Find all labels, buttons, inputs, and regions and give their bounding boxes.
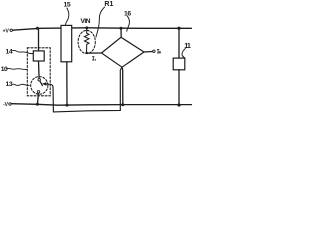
wire diamond bottom to -V rail	[121, 67, 124, 105]
node junction dot -V rail / switch	[36, 103, 39, 106]
node junction dot -V rail / 15	[66, 104, 69, 107]
svg-text:14: 14	[6, 48, 13, 55]
resistor block 15	[61, 25, 72, 61]
node junction dot -V rail / diamond	[121, 103, 124, 106]
wire diamond right vertex to output terminal	[144, 51, 153, 54]
wire control line from arrow to lower return line	[46, 84, 54, 112]
wire block 15 to -V rail	[66, 62, 68, 105]
dashed box block 10	[27, 48, 50, 96]
wire top rail down to block 11	[178, 28, 180, 58]
svg-text:10: 10	[1, 66, 8, 73]
leader line for R1	[96, 7, 105, 37]
leader line for 11	[182, 48, 185, 57]
wire from top rail down to block 14	[38, 29, 40, 51]
label I1	[92, 57, 95, 61]
node output terminal I0	[153, 50, 155, 52]
node junction dot top rail / 11	[177, 27, 180, 30]
switch 13 lever	[40, 81, 43, 86]
wire -V rail	[11, 104, 191, 106]
switch 13 top contact	[38, 79, 41, 82]
svg-text:VIN: VIN	[81, 18, 91, 25]
node corner dot R1 bottom	[85, 52, 87, 54]
dashed circle around switch 13	[31, 77, 48, 95]
wire diamond top to rail	[120, 28, 122, 37]
leader line for 15	[65, 8, 69, 25]
node junction dot top rail / diamond	[120, 27, 123, 30]
leader line for 10	[6, 68, 26, 69]
svg-text:R1: R1	[104, 1, 113, 8]
dashed circle around R1	[78, 30, 95, 53]
leader line for 14	[13, 50, 33, 53]
svg-text:-V: -V	[3, 102, 9, 108]
wire R1 bottom to diamond left vertex	[87, 52, 102, 54]
control arrowhead pointing at switch lever	[42, 82, 47, 86]
node junction dot top rail / R1	[85, 26, 88, 29]
wire block 14 to switch 13	[38, 61, 41, 79]
multiplier diamond 16	[102, 37, 145, 67]
svg-text:11: 11	[184, 41, 191, 50]
svg-text:+V: +V	[3, 29, 10, 35]
resistor R1 zigzag	[84, 29, 89, 53]
leader line for 13	[13, 84, 30, 85]
svg-text:15: 15	[64, 2, 71, 9]
switch 13 bottom contact	[37, 91, 40, 94]
wire lower return line to diamond 16	[53, 67, 122, 112]
node +V terminal	[10, 29, 12, 31]
load block 11	[173, 58, 185, 70]
node junction dot top rail / 14	[36, 27, 39, 30]
label I0	[157, 50, 160, 54]
wire switch 13 to -V rail	[37, 93, 40, 104]
leader line for 16	[127, 16, 130, 31]
svg-text:13: 13	[6, 81, 13, 88]
wire block 11 to -V rail	[178, 70, 180, 105]
capacitor block 14	[33, 51, 44, 61]
wire top +V rail	[12, 28, 191, 30]
svg-text:16: 16	[124, 11, 131, 18]
node junction dot -V rail / 11	[177, 103, 180, 106]
node -V terminal	[9, 103, 11, 105]
